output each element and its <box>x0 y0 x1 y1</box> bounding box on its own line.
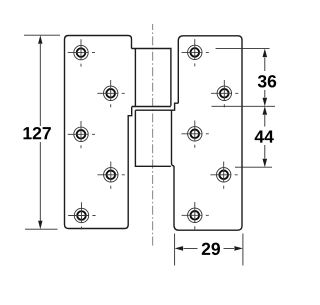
dim 44 label <box>255 131 274 143</box>
screw hole L1 <box>68 39 95 66</box>
dim 29 arrow right <box>234 246 243 251</box>
dim 36 extension line top <box>216 48 270 50</box>
right hinge leaf outline <box>174 36 242 230</box>
knuckle joint step right <box>172 103 179 110</box>
screw hole L4 <box>98 162 125 189</box>
dim 36/44 shared extension line <box>212 105 276 107</box>
dim 29 extension line left <box>174 234 176 266</box>
screw hole L5 <box>68 202 95 229</box>
dim 36 dimension line <box>264 58 266 98</box>
dim 29 label <box>202 243 220 255</box>
dim 36 arrow up <box>263 49 268 58</box>
dim 36 label <box>258 75 276 87</box>
knuckle top section <box>132 49 171 107</box>
dim 29 extension line right <box>242 234 244 266</box>
dim 29 dimension line <box>184 247 235 249</box>
dim 29 arrow left <box>175 246 184 251</box>
dim 44 extension line bottom <box>235 166 272 168</box>
left hinge leaf outline <box>65 36 132 229</box>
dim 44 arrow down <box>263 159 268 168</box>
dim 44 dimension line <box>264 115 266 159</box>
screw hole R1 <box>182 39 209 66</box>
dim 127 arrow up <box>38 35 42 44</box>
dim 127 extension line top <box>24 34 60 36</box>
screw hole R3 <box>182 121 209 148</box>
centerline (hinge axis) <box>152 24 154 246</box>
knuckle middle section <box>135 110 174 166</box>
dim 44 arrow up <box>263 106 268 115</box>
screw hole R2 <box>211 80 238 107</box>
dim 127 dimension line <box>39 44 41 221</box>
dim 127 arrow down <box>38 221 42 230</box>
screw hole L3 <box>68 121 95 148</box>
dim 36 arrow down <box>263 98 268 107</box>
screw hole R5 <box>182 202 209 229</box>
dim 127 label <box>24 127 51 139</box>
screw hole R4 <box>210 162 237 189</box>
screw hole L2 <box>97 80 124 107</box>
dim 127 extension line bottom <box>25 228 58 230</box>
